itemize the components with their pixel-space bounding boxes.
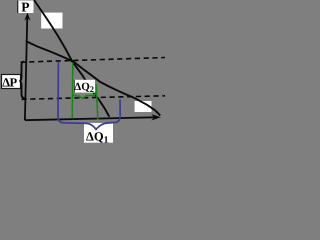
svg-text:P: P	[21, 0, 29, 15]
x-axis Q	[25, 117, 154, 120]
svg-text:ΔP: ΔP	[2, 76, 17, 90]
white label box dQ2	[74, 80, 95, 93]
label box P	[17, 1, 33, 14]
curly brace dP	[19, 61, 25, 98]
steep demand curve D2	[34, 0, 109, 117]
upper dashed price line P1	[21, 58, 166, 63]
white label box (erased) top	[41, 13, 62, 29]
blue dropline and underbrace dQ1	[58, 62, 120, 129]
white label box dQ1	[84, 123, 113, 143]
y-axis arrowhead	[24, 13, 30, 21]
x-axis arrowhead	[151, 114, 161, 121]
lower dashed price line P2	[22, 96, 166, 100]
label box dP	[2, 75, 21, 89]
green dropline at Q on D2 lower price	[96, 84, 98, 120]
green dropline at Q on D2 upper price	[71, 62, 74, 119]
green bracket dQ2	[73, 92, 96, 98]
label box dQ2 left border	[73, 80, 75, 93]
y-axis P	[25, 16, 27, 120]
label box P left border	[17, 1, 19, 14]
white label box (erased) right	[135, 101, 152, 112]
svg-text:ΔQ2: ΔQ2	[74, 81, 94, 94]
shallow demand curve D1	[26, 41, 161, 116]
